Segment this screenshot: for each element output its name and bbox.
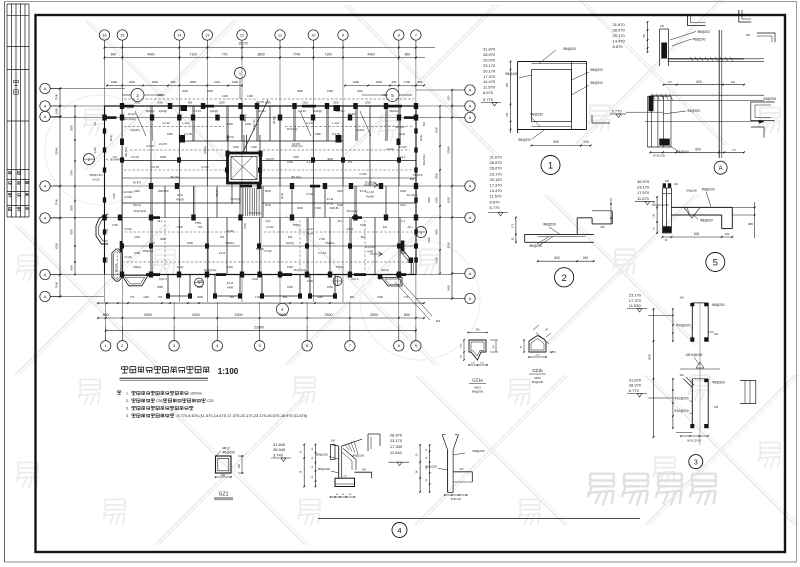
- svg-text:2Z#b: 2Z#b: [167, 132, 173, 136]
- svg-text:PB(M.5): PB(M.5): [413, 173, 423, 177]
- svg-text:A: A: [469, 271, 472, 276]
- svg-text:8Z(2): 8Z(2): [265, 189, 271, 193]
- svg-text:24.070: 24.070: [159, 142, 167, 146]
- svg-text:240: 240: [331, 440, 336, 443]
- svg-text:750: 750: [105, 228, 109, 233]
- svg-text:170: 170: [668, 81, 673, 84]
- svg-text:14.470: 14.470: [613, 39, 626, 44]
- svg-text:h=120: h=120: [92, 178, 100, 182]
- svg-text:A: A: [44, 86, 47, 91]
- svg-text:Φ8@200: Φ8@200: [693, 38, 706, 42]
- svg-text:1700: 1700: [404, 80, 411, 84]
- svg-text:11.570: 11.570: [490, 194, 503, 199]
- svg-text:12: 12: [240, 32, 245, 37]
- svg-text:28.970: 28.970: [629, 383, 642, 388]
- svg-text:15070: 15070: [238, 42, 248, 46]
- svg-text:3KL1(7A): 3KL1(7A): [287, 127, 298, 131]
- svg-text:5800: 5800: [70, 125, 74, 131]
- detail A section: [645, 15, 776, 158]
- svg-text:1300: 1300: [93, 147, 97, 153]
- svg-text:26.070: 26.070: [490, 166, 503, 171]
- svg-text:C30,: C30,: [156, 399, 163, 403]
- svg-text:Φ8@200: Φ8@200: [425, 464, 437, 468]
- svg-text:848: 848: [410, 177, 415, 181]
- svg-text:2520: 2520: [129, 80, 136, 84]
- detail 2 elevation stack: [488, 155, 508, 217]
- detail 5 section: [653, 180, 756, 242]
- svg-text:1500: 1500: [243, 223, 247, 229]
- svg-text:1500: 1500: [435, 257, 439, 263]
- svg-text:980: 980: [171, 80, 176, 84]
- svg-text:1700: 1700: [255, 295, 261, 299]
- svg-text:6Φ10@150: 6Φ10@150: [686, 353, 703, 357]
- svg-text:b=1.55: b=1.55: [332, 132, 341, 136]
- svg-text:2: 2: [561, 273, 566, 284]
- svg-text:3L(1): 3L(1): [280, 193, 284, 199]
- svg-text:3300: 3300: [325, 313, 333, 317]
- svg-text:240: 240: [660, 25, 665, 28]
- svg-text:GZ1a: GZ1a: [472, 378, 483, 383]
- svg-text:2(KL(7)1A): 2(KL(7)1A): [204, 268, 217, 272]
- svg-text:8(11): 8(11): [265, 203, 271, 207]
- svg-text:8.670: 8.670: [483, 90, 494, 95]
- svg-text:1100: 1100: [143, 295, 149, 299]
- svg-text:PB(M.0.42): PB(M.0.42): [89, 173, 102, 177]
- svg-text:3(L(3)): 3(L(3)): [272, 116, 276, 124]
- svg-text:2586: 2586: [157, 285, 163, 289]
- svg-text::5.770,8.670,(11.570,14.470,17: :5.770,8.670,(11.570,14.470,17.370,20.17…: [176, 413, 308, 418]
- svg-text:A: A: [44, 294, 47, 299]
- svg-text:h=120: h=120: [386, 147, 394, 151]
- svg-text:5.770: 5.770: [629, 388, 640, 393]
- svg-text:h=120: h=120: [359, 172, 367, 176]
- svg-text:h=88: h=88: [400, 251, 406, 255]
- svg-text:3KL2(1A): 3KL2(1A): [422, 154, 426, 165]
- GZ1a detail: [461, 329, 499, 394]
- svg-text:20.170: 20.170: [613, 33, 626, 38]
- svg-text:2060: 2060: [157, 101, 163, 105]
- svg-text:3A(S): 3A(S): [177, 265, 184, 269]
- svg-text:3600: 3600: [70, 205, 74, 211]
- svg-text:Pex08: Pex08: [306, 232, 314, 236]
- svg-text:Φ8@200: Φ8@200: [590, 81, 603, 85]
- svg-text:2400: 2400: [70, 265, 74, 271]
- svg-text:980: 980: [188, 101, 193, 105]
- svg-text:1300: 1300: [227, 122, 233, 126]
- svg-text:DL(N)1: DL(N)1: [114, 263, 118, 272]
- svg-text:5.770: 5.770: [483, 97, 494, 102]
- svg-text:7040: 7040: [55, 93, 59, 100]
- svg-text:1750: 1750: [112, 223, 118, 227]
- svg-text:PM(H): PM(H): [336, 265, 344, 269]
- svg-text:L-1(2): L-1(2): [183, 121, 190, 125]
- svg-text:3300: 3300: [235, 313, 243, 317]
- svg-text:26.070: 26.070: [483, 57, 496, 62]
- svg-text:3: 3: [694, 459, 698, 466]
- svg-text:5500: 5500: [435, 127, 439, 133]
- section cut diagonal: [243, 100, 268, 152]
- svg-text:600: 600: [288, 235, 293, 239]
- svg-text:Φ10@200: Φ10@200: [674, 409, 689, 413]
- svg-text:3L(1): 3L(1): [177, 193, 183, 197]
- svg-text:1000: 1000: [400, 189, 406, 193]
- svg-text:2600: 2600: [187, 241, 193, 245]
- svg-text:1930: 1930: [287, 285, 293, 289]
- left title strip table: [7, 4, 29, 217]
- svg-text:24.14: 24.14: [227, 281, 234, 285]
- plan interior bubbles: [83, 68, 426, 288]
- svg-text:Φ8@200: Φ8@200: [687, 109, 700, 113]
- svg-text:1390: 1390: [265, 101, 271, 105]
- bottom dimension lines: [97, 302, 425, 331]
- svg-text:h(14(1)): h(14(1)): [230, 197, 239, 201]
- svg-text:3KL(2A): 3KL(2A): [170, 175, 180, 179]
- long baseline and bubble 4: [318, 519, 640, 538]
- svg-text:3000: 3000: [648, 353, 652, 360]
- svg-text:2400: 2400: [447, 284, 451, 291]
- svg-text:36.970: 36.970: [637, 179, 650, 184]
- svg-text:240: 240: [714, 406, 719, 409]
- svg-text:3KL(2A): 3KL(2A): [291, 175, 301, 179]
- svg-text:4300: 4300: [435, 229, 439, 235]
- svg-text:Φ8@200: Φ8@200: [316, 453, 328, 457]
- svg-text:600: 600: [695, 148, 701, 152]
- svg-text:GZ1: GZ1: [219, 492, 229, 498]
- svg-text:23.170: 23.170: [637, 185, 650, 190]
- svg-text:2520: 2520: [365, 101, 371, 105]
- svg-text:PM(H1)2: PM(H1)2: [143, 249, 154, 253]
- top right bracket: [739, 10, 752, 22]
- svg-text:1.: 1.: [126, 392, 129, 396]
- svg-text:24.14: 24.14: [360, 189, 367, 193]
- svg-text:Φ8@200: Φ8@200: [763, 97, 776, 101]
- svg-text:3600: 3600: [160, 237, 166, 241]
- svg-text:4200: 4200: [70, 229, 74, 235]
- svg-text:4600: 4600: [327, 157, 333, 161]
- svg-text:26.070: 26.070: [256, 100, 264, 104]
- slope arrows: [364, 183, 382, 257]
- svg-text:240: 240: [600, 225, 605, 229]
- svg-text:24.14: 24.14: [219, 251, 226, 255]
- svg-text:7040: 7040: [55, 281, 59, 288]
- svg-text:7040: 7040: [55, 198, 59, 205]
- svg-text:h=120: h=120: [266, 225, 274, 229]
- svg-text:2520: 2520: [376, 80, 383, 84]
- svg-text:600: 600: [111, 52, 117, 56]
- svg-text:250: 250: [238, 463, 241, 468]
- plan top band walls: [105, 99, 417, 141]
- svg-text:Φ8@200: Φ8@200: [318, 467, 330, 471]
- svg-text:1100: 1100: [134, 235, 140, 239]
- bay window bottom-left octagon: [112, 241, 123, 281]
- svg-text:130: 130: [653, 213, 656, 218]
- svg-text:240: 240: [583, 140, 589, 144]
- svg-text:A: A: [44, 215, 47, 220]
- svg-text:1700: 1700: [319, 237, 325, 241]
- svg-text:4.: 4.: [126, 414, 129, 418]
- svg-text:A-0.93: A-0.93: [306, 121, 314, 125]
- svg-text:Pex08: Pex08: [176, 198, 184, 202]
- svg-text:A: A: [469, 183, 472, 188]
- svg-text:4200: 4200: [447, 196, 451, 203]
- svg-text:Φ8@150: Φ8@150: [530, 113, 543, 117]
- svg-text:k=0.020: k=0.020: [123, 190, 133, 194]
- svg-text:A-0.020: A-0.020: [365, 245, 375, 249]
- bottom-left wall detail: [301, 434, 380, 498]
- svg-text:1050: 1050: [327, 285, 333, 289]
- svg-text:3KL(7)(2A): 3KL(7)(2A): [134, 209, 147, 213]
- svg-text:1980: 1980: [353, 80, 360, 84]
- svg-text:PM(H): PM(H): [133, 265, 141, 269]
- svg-text:2410: 2410: [134, 189, 140, 193]
- svg-text:15940: 15940: [55, 147, 59, 155]
- svg-text:1-1.50: 1-1.50: [306, 160, 314, 164]
- svg-text:2110: 2110: [302, 101, 308, 105]
- svg-text:4400: 4400: [367, 52, 375, 56]
- svg-text:921: 921: [383, 225, 388, 229]
- svg-text:1000: 1000: [337, 203, 343, 207]
- svg-text:1600: 1600: [377, 295, 383, 299]
- svg-text:1300: 1300: [222, 94, 228, 98]
- svg-text:3L(1)2(4): 3L(1)2(4): [407, 193, 418, 197]
- svg-text:DL(1): DL(1): [109, 135, 113, 142]
- svg-text:2600: 2600: [297, 206, 303, 210]
- svg-text:2(2k@): 2(2k@): [159, 109, 168, 113]
- svg-text:770: 770: [130, 295, 135, 299]
- svg-text:2060: 2060: [207, 89, 213, 93]
- svg-text:A-1: A-1: [401, 219, 406, 223]
- svg-text:h=150: h=150: [226, 229, 234, 233]
- svg-text:h=120: h=120: [124, 195, 132, 199]
- svg-text:1500: 1500: [415, 257, 419, 263]
- svg-text:30(15A): 30(15A): [335, 109, 344, 113]
- svg-text:Φ8@200: Φ8@200: [590, 68, 603, 72]
- svg-text:2400: 2400: [55, 107, 59, 114]
- svg-text:GZ1b: GZ1b: [532, 368, 543, 373]
- svg-text:60 90 (120): 60 90 (120): [653, 156, 665, 158]
- svg-text:Φ6@200: Φ6@200: [532, 380, 544, 384]
- svg-text:h=88: h=88: [134, 251, 140, 255]
- svg-text:1100: 1100: [317, 295, 323, 299]
- svg-text:1500: 1500: [427, 237, 431, 243]
- right axis bubbles: [452, 85, 475, 304]
- svg-text:DL(1): DL(1): [419, 135, 423, 142]
- svg-text:1390: 1390: [232, 80, 239, 84]
- svg-text:DL211: DL211: [128, 112, 136, 116]
- svg-text:1543: 1543: [127, 106, 133, 110]
- svg-text:1518: 1518: [197, 285, 203, 289]
- svg-text:240: 240: [680, 374, 685, 377]
- svg-text:34.8(5): 34.8(5): [244, 181, 252, 185]
- svg-text:7100: 7100: [190, 52, 198, 56]
- svg-text:h=120: h=120: [399, 145, 407, 149]
- plan tiny dimension texts: [89, 89, 431, 299]
- svg-text:Φ8@200: Φ8@200: [712, 303, 725, 307]
- detail 3 elevation stacks: [627, 293, 673, 398]
- svg-text:PM(H1): PM(H1): [226, 241, 235, 245]
- svg-text:600: 600: [405, 52, 411, 56]
- svg-text:4200: 4200: [427, 197, 431, 203]
- svg-text:34.070: 34.070: [266, 157, 274, 161]
- svg-text:2520: 2520: [134, 101, 140, 105]
- svg-text:7740: 7740: [293, 52, 301, 56]
- column blobs: [102, 103, 418, 299]
- svg-text:Φ8@200: Φ8@200: [700, 219, 713, 223]
- svg-text:Φ8@200: Φ8@200: [712, 381, 725, 385]
- detail 3 section: [648, 297, 726, 446]
- svg-text:900: 900: [505, 82, 509, 87]
- svg-text:30(L5): 30(L5): [226, 135, 234, 139]
- svg-text:A: A: [469, 103, 472, 108]
- svg-text:2830: 2830: [190, 80, 197, 84]
- detail 1 bubble: [541, 156, 560, 175]
- wall black segments: [105, 105, 417, 276]
- svg-text:A-0.93: A-0.93: [298, 109, 306, 113]
- svg-text:2411: 2411: [400, 203, 406, 207]
- svg-text:3300: 3300: [192, 313, 200, 317]
- svg-text:24.14: 24.14: [327, 197, 334, 201]
- svg-text:DL(1(A2)): DL(1(A2)): [124, 117, 136, 121]
- svg-text:800: 800: [404, 313, 410, 317]
- svg-text:17.340: 17.340: [390, 444, 403, 449]
- svg-text:28.970: 28.970: [483, 52, 496, 57]
- svg-text:921: 921: [436, 319, 441, 323]
- stair treads: [243, 188, 259, 216]
- svg-text:2600: 2600: [197, 279, 203, 283]
- svg-text:600: 600: [230, 295, 235, 299]
- svg-text:24.1: 24.1: [400, 155, 406, 159]
- svg-text:Φ8@200: Φ8@200: [563, 47, 576, 51]
- svg-text:600: 600: [553, 140, 559, 144]
- svg-text:5.770: 5.770: [612, 109, 623, 114]
- svg-text:5: 5: [713, 257, 718, 267]
- svg-text:3800: 3800: [257, 52, 265, 56]
- svg-text:2520: 2520: [357, 89, 363, 93]
- svg-text:2830: 2830: [435, 173, 439, 179]
- svg-text:600: 600: [447, 95, 451, 100]
- svg-text:24.14: 24.14: [347, 227, 354, 231]
- svg-text:60 90 120: 60 90 120: [451, 499, 462, 501]
- svg-text:14.470: 14.470: [483, 79, 496, 84]
- svg-text:700: 700: [220, 235, 225, 239]
- svg-text:Pex08: Pex08: [366, 195, 374, 199]
- svg-text:2(2)4(6): 2(2)4(6): [130, 128, 139, 132]
- svg-text:4200: 4200: [55, 242, 59, 249]
- svg-text:PTB1: PTB1: [293, 223, 300, 227]
- svg-text:240: 240: [731, 81, 736, 84]
- svg-text:Φ8@200: Φ8@200: [529, 244, 542, 248]
- svg-text:(2A): (2A): [266, 219, 271, 223]
- svg-text:h=88: h=88: [227, 286, 233, 290]
- svg-text:3KL(7)(2A): 3KL(7)(2A): [249, 211, 262, 215]
- svg-text:3KL(3): 3KL(3): [243, 114, 247, 122]
- svg-text:A: A: [44, 183, 47, 188]
- svg-text:2520: 2520: [182, 89, 188, 93]
- large watermark logo: [588, 474, 614, 506]
- svg-text:1300: 1300: [251, 145, 257, 149]
- svg-text:2(2A): 2(2A): [399, 132, 405, 136]
- svg-text:Φ8@200: Φ8@200: [702, 187, 715, 191]
- svg-text:28.970: 28.970: [490, 160, 503, 165]
- svg-text:h=1.20: h=1.20: [131, 155, 140, 159]
- svg-text:17.570: 17.570: [637, 190, 650, 195]
- plan lower band walls: [122, 218, 416, 275]
- top middle elevation stack: [610, 22, 663, 118]
- bay window bottom-left trapezoid: [122, 276, 148, 286]
- svg-text:800: 800: [350, 295, 355, 299]
- svg-text:1: 1: [548, 161, 553, 172]
- svg-text:240: 240: [583, 256, 589, 260]
- svg-text:1(KL7): 1(KL7): [159, 277, 167, 281]
- svg-text:24.1: 24.1: [337, 219, 343, 223]
- svg-text:14: 14: [177, 32, 182, 37]
- svg-text:30(2A2): 30(2A2): [389, 109, 398, 113]
- svg-text:3KL2(A): 3KL2(A): [395, 125, 405, 129]
- plan side walls: [105, 106, 417, 275]
- svg-text:PTB1: PTB1: [195, 221, 202, 225]
- svg-text:3KL(4)(2): 3KL(4)(2): [347, 209, 358, 213]
- svg-text:1522: 1522: [360, 223, 366, 227]
- svg-text:L-1(2): L-1(2): [333, 121, 340, 125]
- svg-text:31.670: 31.670: [490, 155, 503, 160]
- svg-text:1300: 1300: [233, 145, 239, 149]
- plan vertical grid lines: [105, 60, 416, 326]
- svg-text:23.170: 23.170: [390, 438, 403, 443]
- svg-text:31.870: 31.870: [483, 47, 496, 52]
- svg-text:C25: C25: [207, 399, 213, 403]
- left axis bubbles: [40, 83, 62, 301]
- svg-text:Φ8@200: Φ8@200: [518, 138, 531, 142]
- svg-text:28.070: 28.070: [613, 28, 626, 33]
- svg-text:170: 170: [510, 223, 514, 228]
- svg-text:A: A: [44, 114, 47, 119]
- svg-text:3KL(7)(2A): 3KL(7)(2A): [294, 268, 307, 272]
- top dimension lines: [104, 42, 435, 87]
- svg-text:240: 240: [665, 180, 670, 183]
- svg-text:10: 10: [311, 32, 316, 37]
- svg-text:600: 600: [422, 121, 426, 126]
- svg-text:150: 150: [506, 112, 509, 117]
- svg-text:1500: 1500: [287, 160, 293, 164]
- svg-text:780: 780: [643, 33, 646, 38]
- svg-text:3A(S1): 3A(S1): [286, 241, 294, 245]
- svg-text:1000,800: 1000,800: [158, 189, 169, 193]
- svg-text:22800: 22800: [254, 325, 264, 329]
- svg-text:240: 240: [362, 469, 367, 472]
- svg-text:100: 100: [348, 160, 353, 164]
- svg-text:2110: 2110: [214, 80, 220, 84]
- GZ1b detail: [521, 325, 557, 384]
- svg-text:A-2.49: A-2.49: [306, 227, 314, 231]
- svg-text:16: 16: [102, 32, 107, 37]
- svg-text:h=1.55: h=1.55: [151, 165, 160, 169]
- svg-text:h=120: h=120: [201, 165, 209, 169]
- svg-text:A-0.93: A-0.93: [162, 121, 170, 125]
- svg-text:Φ8@150: Φ8@150: [505, 72, 518, 76]
- svg-text:2830: 2830: [333, 101, 339, 105]
- detail A bubble: [714, 161, 727, 174]
- svg-text:h(M43): h(M43): [256, 247, 264, 251]
- svg-text:28.970: 28.970: [390, 432, 403, 437]
- svg-text:h=120: h=120: [124, 227, 132, 231]
- left dimension line: [55, 87, 76, 297]
- svg-text:2080: 2080: [297, 89, 303, 93]
- svg-text:600: 600: [696, 80, 702, 84]
- svg-text:1500: 1500: [177, 225, 183, 229]
- top middle dim line: [643, 21, 648, 53]
- svg-text:4400: 4400: [147, 52, 155, 56]
- svg-text:2(KL1): 2(KL1): [133, 203, 141, 207]
